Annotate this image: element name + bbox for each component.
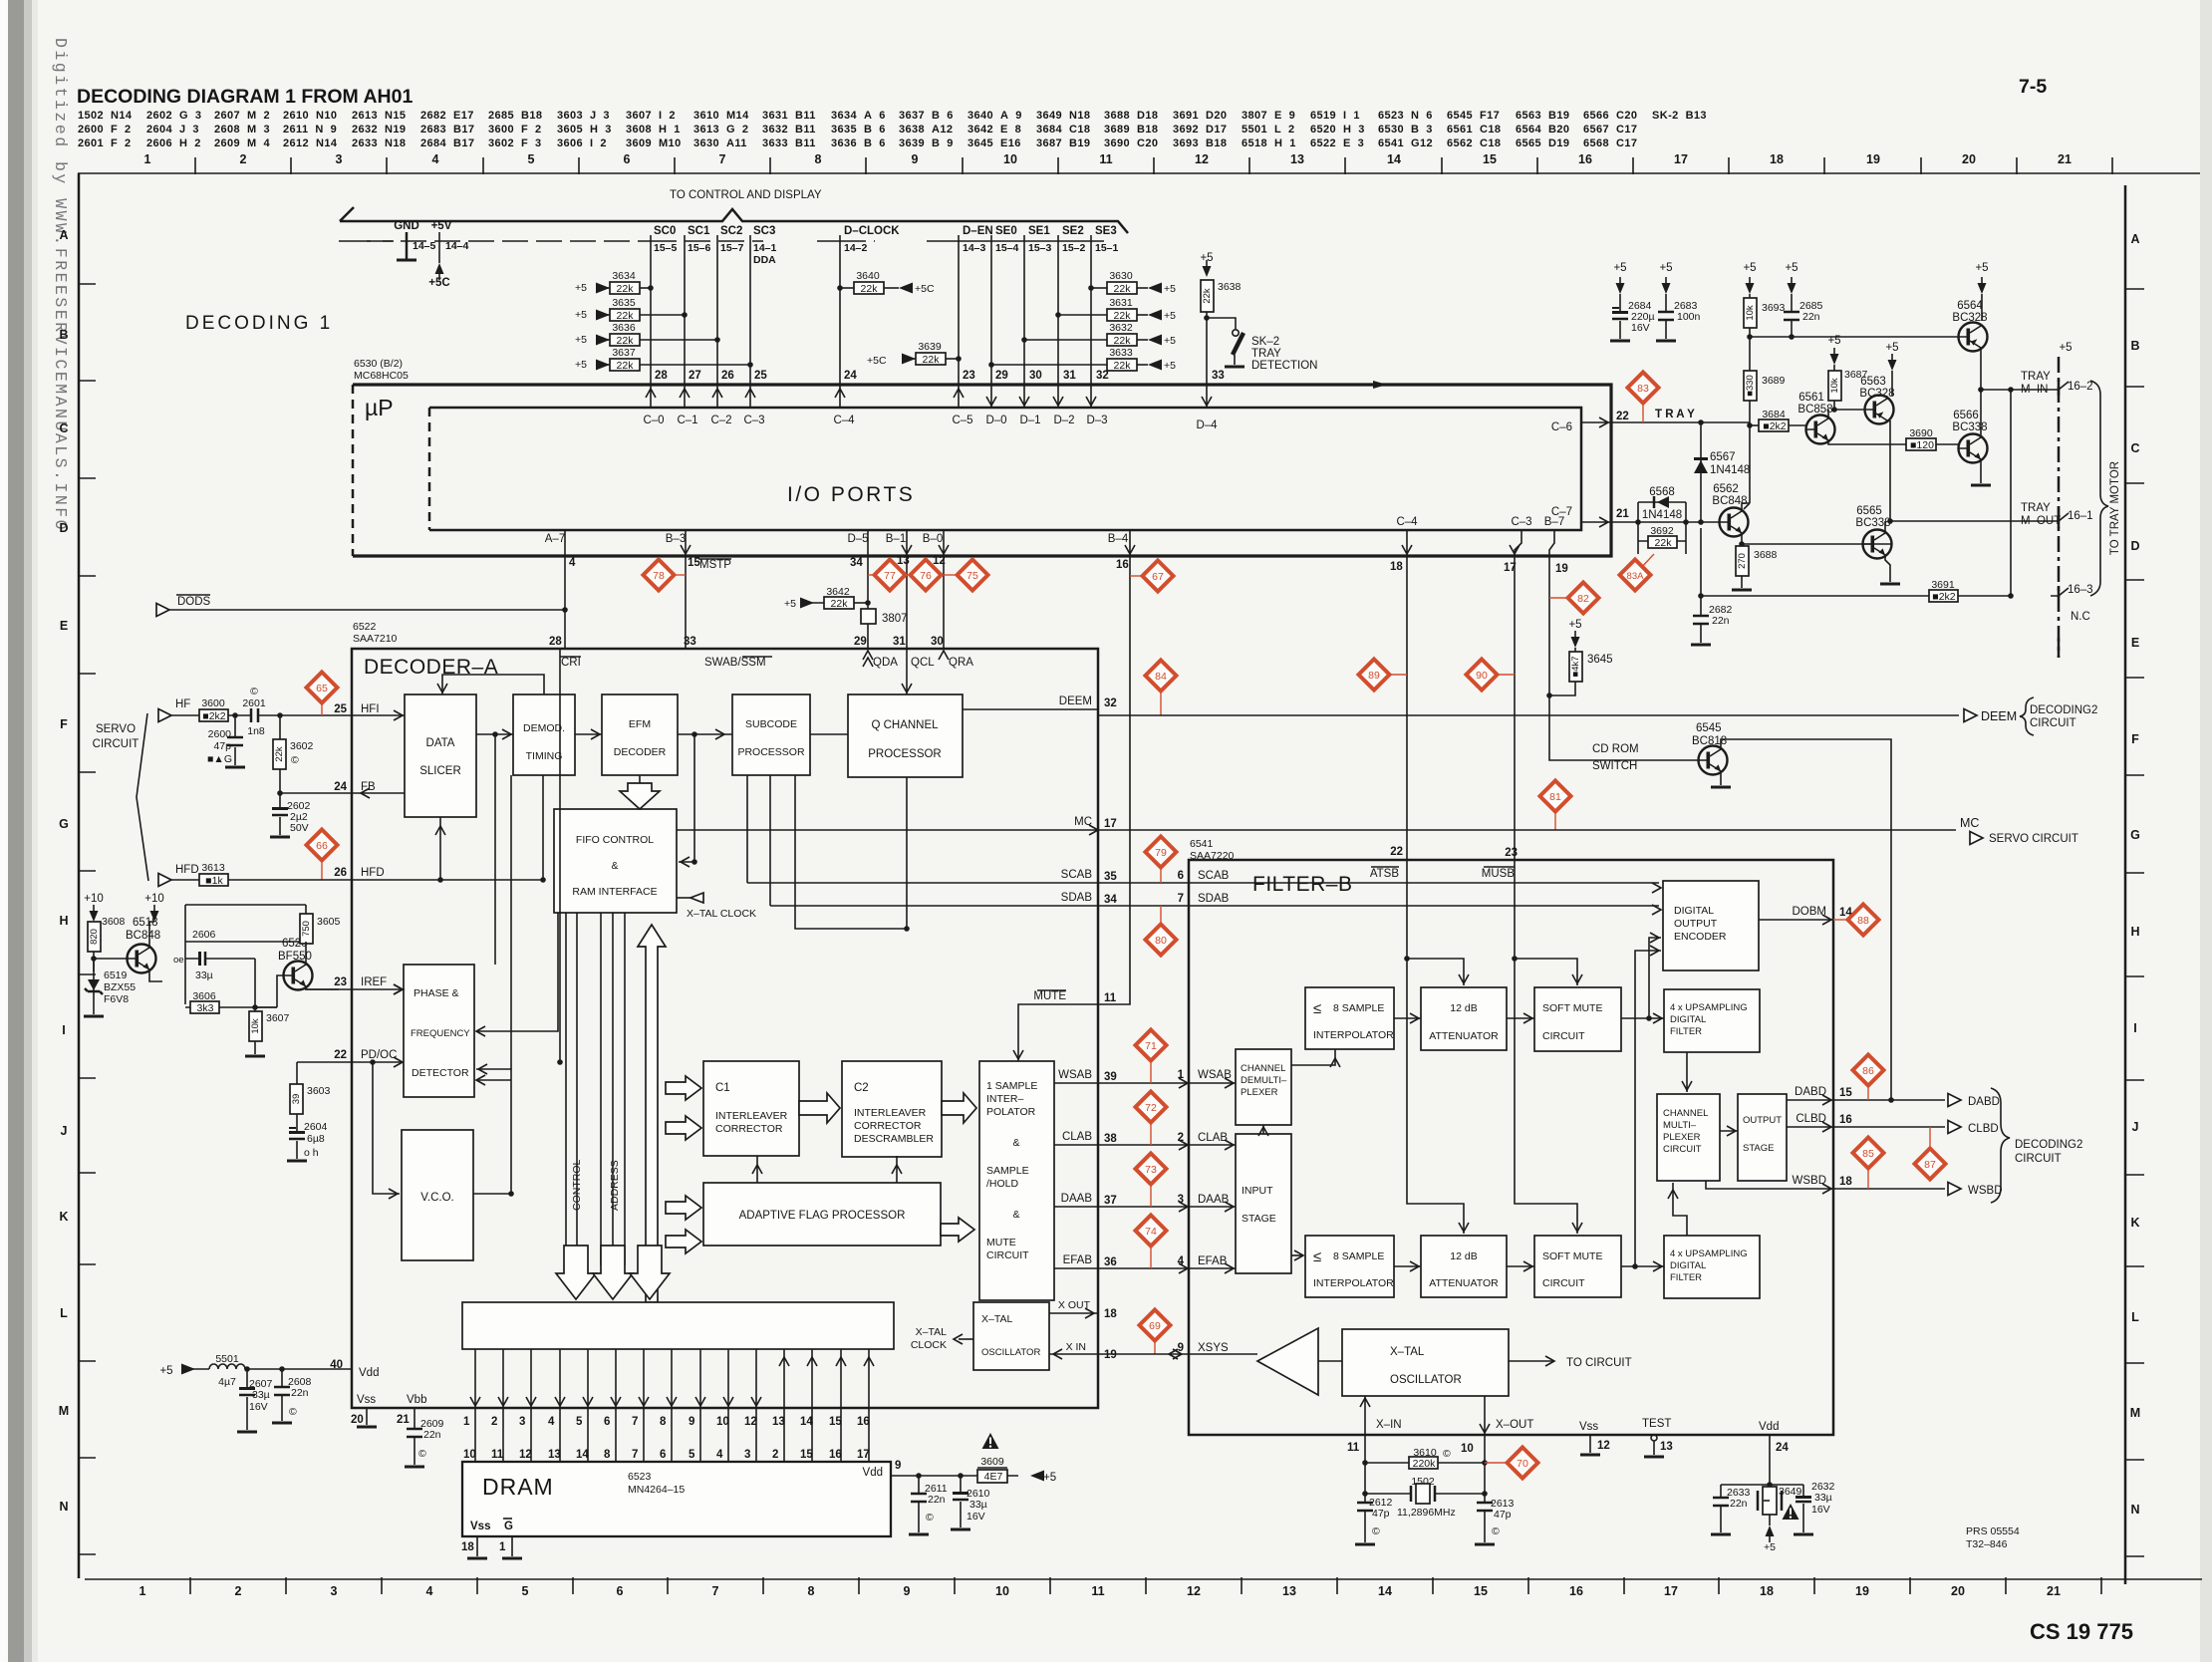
svg-text:&: &	[1012, 1137, 1019, 1149]
block: SOFT MUTE CIRCUIT (upper)	[1534, 987, 1621, 1051]
svg-text:14–4: 14–4	[445, 240, 469, 252]
svg-text:3692 D17: 3692 D17	[1173, 124, 1227, 136]
svg-text:F6V8: F6V8	[104, 993, 129, 1005]
block: CHANNEL DEMULTIPLEXER	[1236, 1049, 1291, 1125]
svg-text:PD/OC: PD/OC	[361, 1049, 397, 1061]
svg-text:4E7: 4E7	[984, 1471, 1003, 1483]
svg-text:SOFT MUTE: SOFT MUTE	[1542, 1002, 1602, 1014]
svg-text:CONTROL: CONTROL	[571, 1160, 583, 1211]
svg-text:820: 820	[89, 929, 100, 945]
wire DABD out	[1787, 1099, 1945, 1101]
svg-text:3: 3	[336, 152, 343, 166]
svg-text:7-5: 7-5	[2019, 76, 2047, 98]
diamond 84 on DEEM wire	[1160, 692, 1162, 715]
svg-text:BZX55: BZX55	[104, 981, 136, 993]
svg-text:17: 17	[1104, 818, 1117, 830]
svg-text:+5: +5	[1827, 335, 1840, 347]
svg-text:6565 D19: 6565 D19	[1516, 138, 1569, 149]
svg-text:13: 13	[1282, 1584, 1296, 1598]
block: SOFT MUTE CIRCUIT (lower)	[1534, 1236, 1621, 1297]
svg-text:V.C.O.: V.C.O.	[420, 1192, 453, 1204]
wire B-7 pin19 down to CD ROM switch	[1549, 530, 1698, 760]
svg-text:22n: 22n	[1730, 1498, 1748, 1510]
svg-text:82: 82	[1577, 593, 1589, 605]
svg-text:DETECTOR: DETECTOR	[412, 1067, 469, 1079]
svg-text:2604 J 3: 2604 J 3	[146, 124, 199, 136]
svg-text:20: 20	[1951, 1584, 1965, 1598]
svg-text:13: 13	[1290, 152, 1304, 166]
svg-text:1N4148: 1N4148	[1642, 509, 1682, 521]
svg-text:INTERPOLATOR: INTERPOLATOR	[1313, 1277, 1394, 1289]
svg-text:3602: 3602	[290, 740, 314, 752]
svg-text:3631: 3631	[1109, 297, 1133, 309]
svg-text:6567: 6567	[1710, 451, 1736, 463]
svg-text:2610 N10: 2610 N10	[283, 110, 337, 122]
wire HFD up into data slicer	[439, 817, 441, 880]
pin labels left edge	[330, 703, 347, 1371]
svg-text:3635: 3635	[612, 297, 636, 309]
svg-text:22k: 22k	[617, 283, 635, 295]
svg-text:21: 21	[397, 1414, 410, 1426]
svg-text:SUBCODE: SUBCODE	[745, 718, 797, 730]
block: 8 SAMPLE INTERPOLATOR (upper)	[1305, 987, 1394, 1049]
diamonds 86 85 87	[1867, 1086, 1869, 1100]
bus collector box	[462, 1302, 894, 1349]
svg-text:3693 B18: 3693 B18	[1173, 138, 1227, 149]
arrows into phase detector	[394, 984, 403, 994]
wire B-3 pin15 MSTP down	[685, 530, 687, 649]
svg-text:8 SAMPLE: 8 SAMPLE	[1333, 1002, 1384, 1014]
svg-text:3649 N18: 3649 N18	[1036, 110, 1090, 122]
svg-text:SCAB: SCAB	[1061, 869, 1093, 881]
svg-text:6: 6	[624, 152, 631, 166]
svg-text:DABD: DABD	[1795, 1086, 1826, 1098]
svg-text:6563: 6563	[1860, 376, 1886, 388]
svg-text:C–1: C–1	[677, 415, 697, 426]
svg-text:6519 I 1: 6519 I 1	[1310, 110, 1360, 122]
amplifier triangle	[1257, 1328, 1318, 1395]
svg-text:87: 87	[1924, 1159, 1936, 1171]
svg-text:2: 2	[772, 1449, 778, 1461]
svg-text:TRAY: TRAY	[1251, 348, 1281, 360]
svg-text:28: 28	[655, 370, 668, 382]
svg-text:1n8: 1n8	[247, 725, 265, 737]
svg-text:11: 11	[1091, 1584, 1104, 1598]
svg-text:CLAB: CLAB	[1062, 1131, 1092, 1143]
wires lower chain	[1394, 1265, 1664, 1267]
svg-text:TO TRAY MOTOR: TO TRAY MOTOR	[2109, 461, 2121, 555]
svg-text:6523: 6523	[628, 1471, 652, 1483]
svg-text:TO CONTROL AND DISPLAY: TO CONTROL AND DISPLAY	[670, 189, 822, 201]
svg-text:Vdd: Vdd	[863, 1467, 883, 1479]
svg-text:3613 G 2: 3613 G 2	[693, 124, 748, 136]
svg-text:D–CLOCK: D–CLOCK	[844, 225, 900, 237]
svg-text:µP: µP	[365, 395, 394, 420]
svg-text:3608: 3608	[102, 916, 126, 928]
svg-text:3640: 3640	[856, 270, 880, 282]
svg-text:H: H	[59, 914, 68, 928]
svg-text:6520 H 3: 6520 H 3	[1310, 124, 1365, 136]
svg-text:DECODER: DECODER	[614, 746, 667, 758]
svg-text:4 x UPSAMPLING: 4 x UPSAMPLING	[1670, 1248, 1748, 1259]
svg-text:TRAY: TRAY	[2021, 502, 2051, 514]
wire SDAB out	[770, 905, 1659, 907]
svg-text:3642 E 8: 3642 E 8	[968, 124, 1021, 136]
svg-text:3687 B19: 3687 B19	[1036, 138, 1090, 149]
svg-text:B–4: B–4	[1108, 533, 1129, 545]
svg-text:6518: 6518	[133, 917, 158, 929]
wire EFM to FIFO via x-tal branch	[679, 734, 694, 862]
svg-text:+5: +5	[2059, 342, 2072, 354]
wires demux to interpolator	[1291, 1049, 1335, 1065]
svg-text:■330: ■330	[1745, 375, 1756, 397]
svg-text:HFD: HFD	[175, 864, 199, 876]
resistor 3609 4E7 fusible	[982, 1433, 999, 1449]
svg-text:24: 24	[1776, 1442, 1789, 1454]
svg-text:MSTP: MSTP	[699, 559, 731, 571]
svg-text:QRA: QRA	[949, 657, 973, 669]
svg-text:PHASE &: PHASE &	[414, 987, 459, 999]
svg-text:14: 14	[576, 1449, 589, 1461]
arrows into I/O ports top: C-0..C-5 up arrows	[651, 385, 959, 408]
svg-text:I: I	[2133, 1021, 2136, 1035]
svg-text:CIRCUIT: CIRCUIT	[2030, 717, 2076, 729]
svg-text:3605 H 3: 3605 H 3	[557, 124, 612, 136]
diamond 83A	[1640, 554, 1654, 569]
svg-text:SC1: SC1	[688, 225, 710, 237]
wire SCAB out	[747, 882, 1659, 884]
svg-text:34: 34	[1104, 894, 1117, 906]
svg-text:6530 (B/2): 6530 (B/2)	[354, 358, 403, 370]
svg-text:DOBM: DOBM	[1793, 906, 1827, 918]
svg-text:3645: 3645	[1587, 654, 1613, 666]
wire D-EN	[958, 235, 960, 384]
svg-text:Digitized by WWW.FREESERVICEMA: Digitized by WWW.FREESERVICEMANUALS.INFO	[51, 38, 70, 532]
svg-text:+10: +10	[84, 893, 104, 905]
svg-text:DEMULTI–: DEMULTI–	[1241, 1075, 1287, 1086]
svg-text:DEMOD.: DEMOD.	[523, 722, 565, 734]
svg-text:©: ©	[289, 1406, 297, 1418]
svg-text:Vbb: Vbb	[407, 1394, 426, 1406]
svg-text:4: 4	[432, 152, 439, 166]
svg-text:1: 1	[139, 1584, 146, 1598]
svg-text:BC848: BC848	[126, 930, 160, 942]
diamond 78	[675, 574, 686, 576]
capacitor 2607 33u 16V	[246, 1369, 248, 1430]
svg-text:3639: 3639	[918, 341, 942, 353]
svg-text:21: 21	[2058, 152, 2072, 166]
svg-text:DECODING2: DECODING2	[2030, 704, 2097, 716]
svg-text:SERVO: SERVO	[96, 723, 136, 735]
svg-text:25: 25	[754, 370, 767, 382]
wire D-4 from SK-2 node down into I/O ports	[1206, 386, 1208, 408]
svg-text:24: 24	[844, 370, 857, 382]
svg-text:QDA: QDA	[873, 657, 898, 669]
svg-text:33µ: 33µ	[252, 1389, 270, 1401]
svg-text:MUTE: MUTE	[986, 1237, 1016, 1248]
internal block: C2 INTERLEAVER CORRECTOR DESCRAMBLER	[842, 1061, 942, 1157]
svg-text:C: C	[59, 421, 68, 435]
pin numbers below outer bottom	[569, 411, 1629, 575]
svg-text:RAM INTERFACE: RAM INTERFACE	[572, 886, 657, 898]
svg-text:16: 16	[857, 1416, 870, 1428]
svg-text:CIRCUIT: CIRCUIT	[93, 738, 139, 750]
svg-text:C–6: C–6	[1551, 421, 1572, 433]
resistor 3607 10k vertical	[249, 1011, 262, 1041]
svg-text:C–7: C–7	[1551, 506, 1572, 518]
svg-text:16: 16	[829, 1449, 842, 1461]
svg-text:SE0: SE0	[995, 225, 1017, 237]
wire DOBM	[1759, 919, 1833, 921]
block arrow into AFP left	[666, 1196, 701, 1220]
svg-text:26: 26	[721, 370, 734, 382]
svg-text:27: 27	[689, 370, 701, 382]
svg-text:2601 F 2: 2601 F 2	[78, 138, 132, 149]
wire WSBD out	[1706, 1181, 1945, 1189]
block: OUTPUT STAGE	[1738, 1094, 1787, 1181]
diamond 66	[321, 861, 323, 880]
svg-text:DEEM: DEEM	[1059, 695, 1092, 707]
MUTE wire into interpolator	[1018, 1004, 1098, 1061]
down block arrows into bus collector box	[556, 1246, 596, 1299]
svg-text:CIRCUIT: CIRCUIT	[1542, 1277, 1585, 1289]
svg-text:11: 11	[1347, 1442, 1360, 1454]
svg-text:+5: +5	[1975, 262, 1988, 274]
arrows D-0..D-3 down arrows	[991, 385, 1091, 408]
diode 6568 + resistor 3692 22k network	[1638, 502, 1686, 554]
svg-text:3637: 3637	[612, 347, 636, 359]
svg-text:Vss: Vss	[357, 1394, 376, 1406]
brace DECODING2 CIRCUIT	[1991, 1088, 2010, 1203]
capacitor 2633 22n	[1720, 1485, 1722, 1532]
svg-text:©: ©	[1372, 1525, 1380, 1537]
resistor 3608 820 vertical	[88, 922, 101, 952]
svg-text:A–7: A–7	[545, 533, 565, 545]
wire DAAB out	[1054, 1206, 1236, 1208]
svg-text:F: F	[60, 717, 68, 731]
svg-text:Vdd: Vdd	[1759, 1421, 1779, 1433]
svg-text:CORRECTOR: CORRECTOR	[854, 1120, 922, 1132]
svg-text:3600 F 2: 3600 F 2	[488, 124, 542, 136]
svg-text:2685 B18: 2685 B18	[488, 110, 542, 122]
svg-text:25: 25	[334, 703, 347, 715]
svg-text:3: 3	[744, 1449, 750, 1461]
capacitor 2612 47p	[1364, 1494, 1366, 1542]
svg-text:7: 7	[632, 1449, 638, 1461]
internal block: SUBCODE PROCESSOR	[732, 694, 810, 775]
svg-text:18: 18	[1770, 152, 1784, 166]
svg-text:A: A	[59, 228, 68, 242]
svg-text:+5C: +5C	[428, 277, 449, 289]
svg-text:2633 N18: 2633 N18	[352, 138, 406, 149]
svg-text:4: 4	[569, 557, 576, 569]
svg-text:3603: 3603	[307, 1085, 331, 1097]
svg-text:3638: 3638	[1218, 281, 1242, 293]
svg-text:+10: +10	[144, 893, 164, 905]
svg-text:9: 9	[912, 152, 919, 166]
svg-text:SAMPLE: SAMPLE	[986, 1165, 1029, 1177]
svg-text:70: 70	[1517, 1458, 1528, 1470]
svg-text:QCL: QCL	[911, 657, 935, 669]
svg-text:16: 16	[1839, 1114, 1852, 1126]
svg-text:3609: 3609	[980, 1456, 1004, 1468]
svg-text:47p: 47p	[213, 740, 231, 752]
svg-text:I/O PORTS: I/O PORTS	[787, 483, 915, 506]
svg-text:5: 5	[689, 1449, 695, 1461]
svg-text:5: 5	[522, 1584, 529, 1598]
svg-text:15: 15	[800, 1449, 813, 1461]
svg-text:SAA7210: SAA7210	[353, 633, 398, 645]
svg-text:22k: 22k	[1114, 283, 1132, 295]
svg-text:22k: 22k	[1114, 310, 1132, 322]
svg-text:10: 10	[463, 1449, 476, 1461]
pin labels on top edge	[549, 636, 944, 648]
arrow AFP to mute circuit	[941, 1218, 974, 1242]
wire SC2	[716, 235, 718, 384]
svg-text:TEST: TEST	[1642, 1418, 1671, 1430]
block: DIGITAL OUTPUT ENCODER	[1663, 881, 1759, 970]
svg-text:ENCODER: ENCODER	[1674, 931, 1727, 943]
svg-text:INTERLEAVER: INTERLEAVER	[715, 1110, 788, 1122]
svg-text:B: B	[2130, 339, 2139, 353]
svg-text:FREQUENCY: FREQUENCY	[411, 1028, 470, 1039]
svg-text:3k3: 3k3	[197, 1002, 214, 1014]
svg-text:6563 B19: 6563 B19	[1516, 110, 1569, 122]
svg-text:STAGE: STAGE	[1743, 1143, 1775, 1154]
svg-text:10: 10	[995, 1584, 1009, 1598]
wire DODS from A-7 to left	[169, 609, 565, 611]
svg-text:■2k2: ■2k2	[202, 710, 225, 722]
diamond 81 on MC wire	[1554, 812, 1556, 830]
svg-text:15–6: 15–6	[688, 242, 711, 254]
X-TAL CLOCK stub from FIFO	[677, 897, 691, 899]
svg-text:DABD: DABD	[1968, 1096, 2000, 1108]
svg-text:INTER–: INTER–	[986, 1093, 1024, 1105]
svg-text:23: 23	[963, 370, 975, 382]
internal block: C1 INTERLEAVER CORRECTOR	[703, 1061, 799, 1156]
svg-text:CIRCUIT: CIRCUIT	[1663, 1144, 1702, 1155]
svg-text:89: 89	[1368, 670, 1380, 682]
svg-text:POLATOR: POLATOR	[986, 1106, 1036, 1118]
block arrows C1->C2->interpolator	[799, 1093, 840, 1123]
diamond 77	[868, 574, 876, 576]
capacitor 2613 47p	[1484, 1494, 1486, 1542]
wire SC3	[749, 235, 751, 384]
capacitor 2610 33u 16V	[960, 1476, 962, 1527]
diamond 76	[907, 574, 912, 576]
svg-text:C–5: C–5	[952, 415, 972, 426]
svg-text:3807: 3807	[882, 613, 908, 625]
wire B-4 pin16 down to MUTE pin 11	[1098, 530, 1130, 1004]
diamond 75	[944, 574, 957, 576]
svg-text:65: 65	[316, 683, 328, 694]
svg-text:TRAY: TRAY	[2021, 371, 2051, 383]
svg-text:16V: 16V	[967, 1511, 985, 1523]
port bit labels below inner top edge	[643, 415, 1218, 431]
svg-text:3807 E 9: 3807 E 9	[1242, 110, 1295, 122]
svg-text:DECODING2: DECODING2	[2015, 1139, 2082, 1151]
svg-text:22n: 22n	[1712, 615, 1730, 627]
svg-text:6545 F17: 6545 F17	[1447, 110, 1500, 122]
svg-text:79: 79	[1155, 847, 1167, 859]
svg-text:18: 18	[1104, 1308, 1117, 1320]
svg-text:33: 33	[1212, 370, 1225, 382]
svg-text:16: 16	[1116, 559, 1129, 571]
svg-text:+5: +5	[1164, 360, 1176, 372]
svg-text:E: E	[60, 619, 68, 633]
svg-text:39: 39	[1104, 1071, 1117, 1083]
internal block: 1 SAMPLE INTERPOLATOR / SAMPLE HOLD / MUTE CIRCUIT	[979, 1061, 1054, 1300]
svg-text:12: 12	[1187, 1584, 1201, 1598]
svg-text:PROCESSOR: PROCESSOR	[737, 746, 805, 758]
svg-text:88: 88	[1857, 915, 1869, 927]
svg-text:22k: 22k	[1202, 288, 1213, 304]
svg-text:M–IN: M–IN	[2021, 384, 2048, 396]
VCO wiring	[373, 1062, 400, 1194]
svg-text:oe: oe	[173, 955, 184, 966]
up block arrow into FIFO bottom	[638, 925, 666, 1302]
svg-text:19: 19	[1555, 563, 1568, 575]
svg-text:66: 66	[316, 840, 328, 852]
internal block: FIFO CONTROL & RAM INTERFACE	[554, 809, 677, 913]
svg-text:22n: 22n	[928, 1494, 946, 1506]
svg-text:+5: +5	[1613, 262, 1626, 274]
port labels on inner bottom edge	[545, 421, 1572, 545]
svg-text:17: 17	[1674, 152, 1688, 166]
svg-text:7: 7	[712, 1584, 719, 1598]
frame left edge with row letters	[59, 173, 96, 1578]
svg-text:3630 A11: 3630 A11	[693, 138, 747, 149]
wire TRAY M-OUT	[1890, 520, 2059, 522]
svg-text:83A: 83A	[1627, 571, 1645, 582]
svg-text:22k: 22k	[617, 335, 635, 347]
svg-text:o h: o h	[304, 1147, 319, 1159]
svg-text:33µ: 33µ	[195, 969, 213, 981]
svg-text:3610 M14: 3610 M14	[693, 110, 749, 122]
svg-text:+5: +5	[1164, 283, 1176, 295]
svg-text:C–3: C–3	[1511, 516, 1531, 528]
svg-text:8: 8	[808, 1584, 815, 1598]
svg-text:+5: +5	[1659, 262, 1672, 274]
svg-text:M–OUT: M–OUT	[2021, 515, 2061, 527]
svg-text:/HOLD: /HOLD	[986, 1178, 1019, 1190]
svg-text:5: 5	[528, 152, 535, 166]
svg-text:3690 C20: 3690 C20	[1104, 138, 1158, 149]
encoder feed wires from filters	[1649, 938, 1661, 1018]
svg-text:3634 A 6: 3634 A 6	[831, 110, 886, 122]
svg-text:D–5: D–5	[847, 533, 868, 545]
svg-text:≤: ≤	[1313, 1000, 1321, 1017]
svg-text:4 x UPSAMPLING: 4 x UPSAMPLING	[1670, 1002, 1748, 1013]
wire SE2	[1057, 235, 1059, 384]
dash-dot bus line	[339, 240, 394, 242]
svg-text:6562 C18: 6562 C18	[1447, 138, 1501, 149]
svg-text:81: 81	[1549, 791, 1561, 803]
svg-text:6523 N 6: 6523 N 6	[1378, 110, 1433, 122]
svg-text:■120: ■120	[1910, 439, 1934, 451]
svg-text:5501 L 2: 5501 L 2	[1242, 124, 1295, 136]
svg-text:3638 A12: 3638 A12	[899, 124, 953, 136]
svg-text:12: 12	[1597, 1440, 1610, 1452]
I/O PORTS inner box	[429, 408, 1581, 530]
svg-text:22k: 22k	[831, 598, 849, 610]
capacitor 2609 22n	[407, 1429, 422, 1437]
svg-text:3606 I 2: 3606 I 2	[557, 138, 607, 149]
svg-text:B–3: B–3	[666, 533, 686, 545]
svg-text:3689: 3689	[1762, 375, 1786, 387]
wire SE0	[990, 235, 992, 384]
wire TRAY M-IN	[1981, 389, 2059, 391]
